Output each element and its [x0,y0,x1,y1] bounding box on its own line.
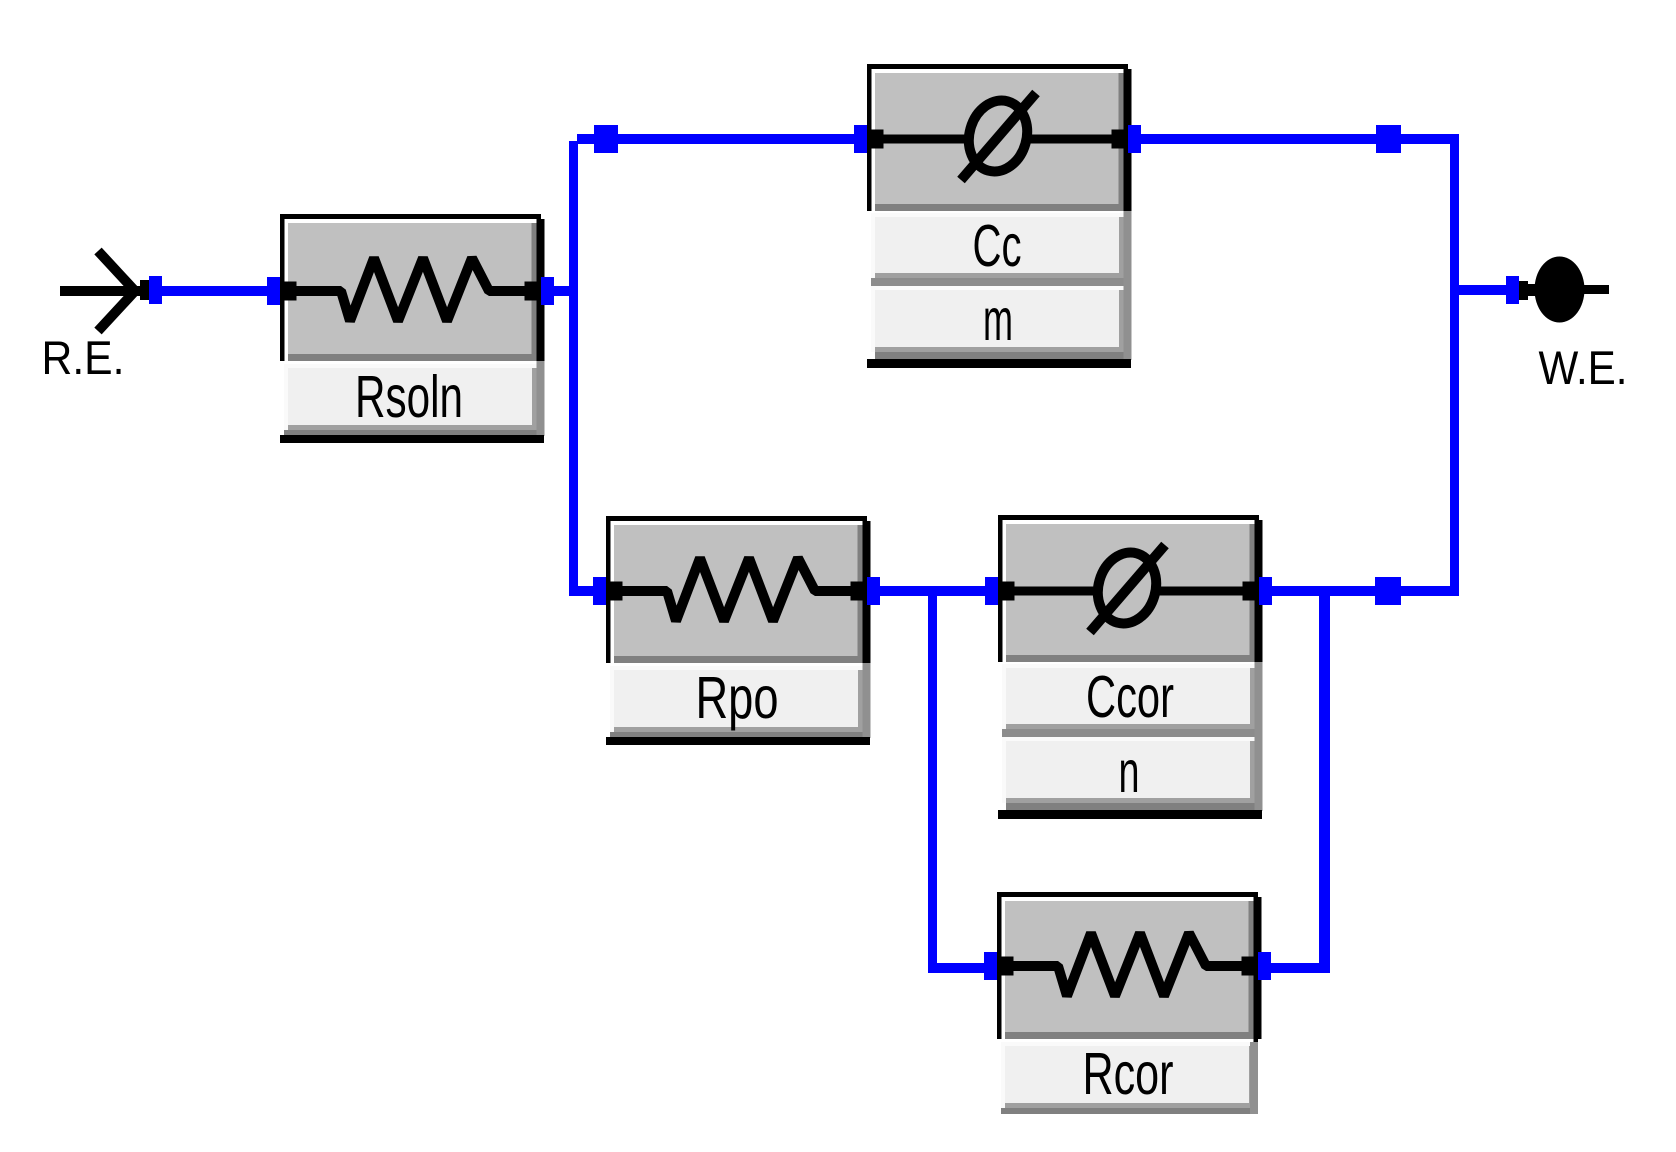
pin left of Cc [854,125,867,153]
CPE symbol slash Ccor [1090,545,1165,632]
pin left of Rsoln [267,277,280,305]
resistor Rcor [984,892,1271,1114]
lead pad right of Rsoln [525,282,537,301]
pin right of Rcor [1258,952,1271,980]
resistor Rpo [593,516,880,745]
wire R.E. to Rsoln [162,286,268,296]
pin right of Rpo [867,577,880,605]
svg-text:Rsoln: Rsoln [355,364,463,430]
wire right vertical riser [1450,134,1459,596]
junction top left [594,125,618,153]
lead right of Cc [1027,135,1112,144]
wire Rcor branch right horizontal [1271,963,1330,973]
lead right of Ccor [1156,587,1243,596]
wire Rcor branch left horizontal [928,963,986,973]
svg-text:m: m [983,287,1013,353]
CPE symbol ellipse Ccor [1090,546,1165,631]
lead pad left of Rcor [1002,957,1014,976]
pin right of Cc [1128,125,1141,153]
svg-text:W.E.: W.E. [1539,341,1628,394]
lead pad left of Rsoln [285,282,297,301]
CPE symbol slash Cc [961,93,1036,180]
lead left of Ccor [1014,587,1098,596]
wire stub to W.E. [1459,285,1507,295]
resistor symbol Rsoln [296,258,525,321]
wire bottom branch right segment [1271,586,1459,596]
lead pad right of Cc [1112,130,1124,149]
wire top branch right segment [1141,134,1459,144]
pin right of Rsoln [541,277,554,305]
resistor symbol Rcor [1013,933,1242,996]
pin left of Rcor [984,952,997,980]
wire Rcor branch right vertical [1319,590,1330,973]
capacitor Ccor [985,515,1272,819]
lead pad right of Rpo [851,582,863,601]
pin left of Ccor [985,577,998,605]
lead pad left of Rpo [611,582,623,601]
wire left vertical riser [569,141,578,596]
lead pad right of Ccor [1243,582,1255,601]
lead pad left of Cc [872,130,884,149]
wire Rcor branch left vertical [928,590,937,973]
svg-text:n: n [1119,739,1140,805]
CPE symbol ellipse Cc [961,94,1036,179]
svg-text:Rcor: Rcor [1083,1041,1174,1107]
wire bottom branch middle segment [879,586,986,596]
wire bottom branch left segment [569,586,595,596]
lead pad left of Ccor [1003,582,1015,601]
wire top branch left segment [577,134,855,144]
resistor symbol Rpo [622,558,851,621]
lead pad right of Rcor [1242,957,1254,976]
lead left of Cc [883,135,969,144]
junction bottom right [1375,577,1401,605]
terminal W.E. [1506,257,1609,323]
capacitor Cc [854,64,1141,368]
junction top right [1376,125,1401,153]
svg-text:Cc: Cc [973,213,1022,279]
svg-text:Rpo: Rpo [696,665,779,731]
pin right of Ccor [1259,577,1272,605]
svg-text:R.E.: R.E. [42,331,125,384]
terminal R.E. [60,251,162,331]
wire Rsoln to left vertical [554,286,578,296]
resistor Rsoln [267,214,554,443]
pin left of Rpo [593,577,606,605]
svg-text:Ccor: Ccor [1086,664,1174,730]
